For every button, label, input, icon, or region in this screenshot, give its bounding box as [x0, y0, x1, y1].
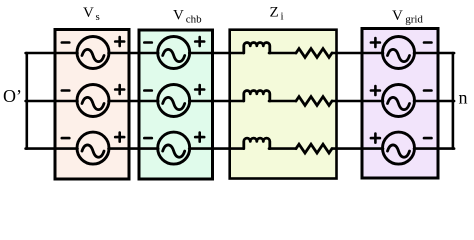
svg-text:i: i [281, 11, 284, 23]
source Vsa [77, 37, 109, 69]
wire row a: Vchb to Zi [213, 52, 230, 55]
wire Vchb right lead row c [189, 147, 212, 150]
wire row b: Vs to Vchb [129, 100, 139, 103]
wire row c: Vgrid to right bus [438, 147, 454, 150]
svg-text:chb: chb [186, 14, 202, 26]
source Vgrid-a [383, 37, 415, 69]
polarity - of Vsc [62, 137, 70, 140]
svg-text:O’: O’ [3, 86, 22, 106]
svg-text:s: s [96, 11, 100, 23]
resistor Rc [296, 144, 332, 153]
inductor La [244, 43, 270, 53]
polarity + of Vchb-a [195, 37, 204, 46]
source Vchb-a [158, 37, 190, 69]
wire row b: Zi to Vgrid [337, 100, 363, 103]
inductor Lb [244, 91, 270, 101]
polarity - of Vchb-a [144, 41, 152, 44]
box Vchb [139, 30, 213, 179]
source Vsb [77, 85, 109, 117]
polarity - of Vsa [62, 41, 70, 44]
wire row a: Zi to Vgrid [337, 52, 363, 55]
svg-text:V: V [83, 5, 94, 21]
resistor Rb [296, 97, 332, 106]
svg-text:Z: Z [270, 5, 279, 21]
right bus wire [452, 53, 455, 149]
source Vsc [77, 132, 109, 164]
wire row b: Vgrid to right bus [438, 100, 454, 103]
polarity - of Vgrid-b [424, 89, 432, 92]
polarity + of Vsb [115, 85, 124, 94]
polarity + of Vsa [115, 37, 124, 46]
source Vchb-b [158, 85, 190, 117]
polarity - of Vchb-b [144, 89, 152, 92]
svg-text:V: V [392, 8, 403, 24]
label Zi [270, 5, 284, 23]
wire Zi lead-in row b [230, 100, 243, 103]
wire Lc to Rc row c [269, 147, 296, 150]
wire row c: Vs to Vchb [129, 147, 139, 150]
polarity + of Vchb-c [195, 133, 204, 142]
wire row a: Vgrid to right bus [438, 52, 454, 55]
wire Vchb left lead row b [139, 100, 158, 103]
polarity - of Vgrid-a [424, 41, 432, 44]
wire Vs right lead row a [109, 52, 130, 55]
left bus wire [25, 53, 28, 149]
wire Vs right lead row c [109, 147, 130, 150]
polarity + of Vgrid-c [371, 134, 380, 143]
wire Vchb right lead row b [189, 100, 212, 103]
polarity + of Vsc [115, 133, 124, 142]
box Vgrid [362, 29, 438, 179]
wire Vchb left lead row c [139, 147, 158, 150]
wire Lb to Rb row b [269, 100, 296, 103]
label Vs [83, 5, 100, 23]
wire Rb to box edge row b [332, 100, 337, 103]
svg-text:n: n [459, 88, 468, 108]
wire Zi lead-in row a [230, 52, 243, 55]
wire La to Ra row a [269, 52, 296, 55]
wire Vgrid right lead row b [414, 100, 438, 103]
wire row b: Vchb to Zi [213, 100, 230, 103]
box Zi [230, 30, 337, 179]
wire Vs left lead row c [55, 147, 78, 150]
wire Vchb right lead row a [189, 52, 212, 55]
wire Zi lead-in row c [230, 147, 243, 150]
source Vgrid-c [383, 132, 415, 164]
polarity + of Vchb-b [195, 85, 204, 94]
wire row c: Zi to Vgrid [337, 147, 363, 150]
label Vgrid [392, 8, 423, 26]
inductor Lc [244, 138, 270, 148]
polarity - of Vchb-c [144, 137, 152, 140]
wire row b: left bus to Vs [26, 100, 55, 103]
polarity - of Vsb [62, 89, 70, 92]
source Vchb-c [158, 132, 190, 164]
wire Vgrid left lead row b [362, 100, 383, 103]
wire row c: left bus to Vs [26, 147, 55, 150]
wire row a: left bus to Vs [26, 52, 55, 55]
wire row c: Vchb to Zi [213, 147, 230, 150]
wire Vgrid right lead row c [414, 147, 438, 150]
source Vgrid-b [383, 85, 415, 117]
wire Ra to box edge row a [332, 52, 337, 55]
svg-text:V: V [173, 8, 184, 24]
wire Vgrid right lead row a [414, 52, 438, 55]
wire row a: Vs to Vchb [129, 52, 139, 55]
svg-text:grid: grid [405, 14, 423, 26]
polarity - of Vgrid-c [424, 137, 432, 140]
wire Vs left lead row b [55, 100, 78, 103]
wire Vgrid left lead row c [362, 147, 383, 150]
polarity + of Vgrid-b [371, 86, 380, 95]
polarity + of Vgrid-a [371, 38, 380, 47]
wire Vchb left lead row a [139, 52, 158, 55]
wire Vs left lead row a [55, 52, 78, 55]
box Vs [55, 30, 129, 180]
resistor Ra [296, 49, 332, 58]
wire Vgrid left lead row a [362, 52, 383, 55]
wire Vs right lead row b [109, 100, 130, 103]
label Vchb [173, 8, 202, 26]
wire Rc to box edge row c [332, 147, 337, 150]
